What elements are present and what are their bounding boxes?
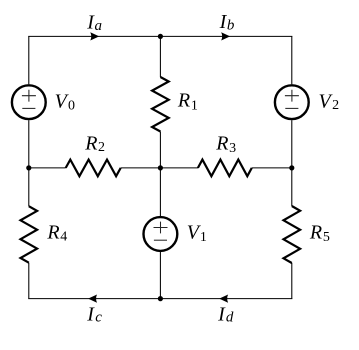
svg-text:R1: R1 bbox=[177, 90, 198, 114]
svg-text:Ic: Ic bbox=[86, 304, 102, 326]
wire top bbox=[28, 35, 292, 37]
wire right middle bbox=[291, 120, 293, 206]
resistor R2 bbox=[66, 160, 121, 177]
resistor R3 bbox=[198, 160, 252, 177]
wire left middle bbox=[28, 120, 30, 206]
svg-text:V1: V1 bbox=[187, 222, 207, 246]
V2 minus sign bbox=[285, 107, 298, 109]
wire left lower bbox=[28, 263, 30, 299]
node dot left-middle bbox=[26, 165, 31, 170]
V0 minus sign bbox=[22, 107, 35, 109]
current arrow Ib bbox=[221, 32, 230, 40]
resistor R1 bbox=[152, 77, 169, 132]
svg-text:V0: V0 bbox=[55, 90, 75, 113]
svg-text:R5: R5 bbox=[309, 222, 330, 245]
wire middle-horizontal right segment bbox=[252, 167, 292, 169]
current arrow Ic bbox=[88, 295, 97, 303]
wire middle-horizontal center segment bbox=[121, 167, 198, 169]
svg-text:V2: V2 bbox=[319, 90, 340, 113]
V1 minus sign bbox=[154, 239, 167, 241]
svg-text:R3: R3 bbox=[215, 133, 236, 156]
V2 plus sign bbox=[285, 90, 299, 102]
wire center-vertical top segment bbox=[159, 36, 161, 77]
voltage source V1 circle bbox=[144, 217, 178, 251]
current arrow Ia bbox=[90, 32, 99, 40]
svg-text:Id: Id bbox=[217, 303, 234, 325]
svg-text:Ia: Ia bbox=[86, 12, 102, 34]
node dot top-center bbox=[158, 34, 163, 39]
wire bottom bbox=[28, 298, 292, 300]
current arrow Id bbox=[219, 295, 228, 303]
wire center-vertical middle segment bbox=[159, 132, 161, 217]
wire center-vertical bottom segment bbox=[159, 252, 161, 299]
node dot bottom-center bbox=[158, 296, 163, 301]
resistor R5 bbox=[284, 206, 301, 263]
resistor R4 bbox=[21, 206, 38, 263]
V1 plus sign bbox=[154, 222, 168, 234]
node dot center bbox=[158, 165, 163, 170]
wire left upper bbox=[28, 36, 30, 84]
voltage source V2 circle bbox=[275, 85, 309, 119]
wire right upper bbox=[291, 36, 293, 84]
wire right lower bbox=[291, 263, 293, 299]
node dot right-middle bbox=[289, 165, 294, 170]
svg-text:Ib: Ib bbox=[219, 11, 235, 33]
V0 plus sign bbox=[22, 90, 36, 102]
voltage source V0 circle bbox=[12, 85, 46, 119]
svg-text:R4: R4 bbox=[46, 222, 67, 245]
wire middle-horizontal left segment bbox=[29, 167, 66, 169]
svg-text:R2: R2 bbox=[84, 133, 105, 155]
